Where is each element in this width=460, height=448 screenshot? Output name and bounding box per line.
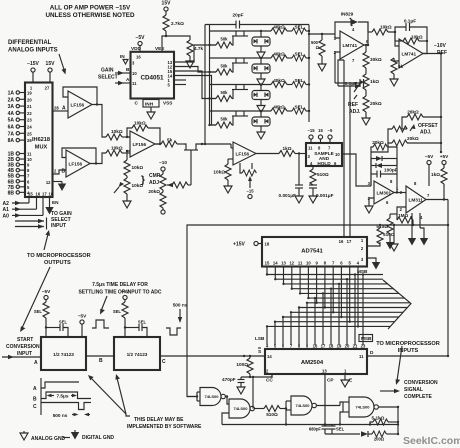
svg-text:LM741: LM741: [402, 51, 417, 56]
svg-text:1: 1: [361, 238, 364, 243]
ladder row 3: [208, 78, 310, 113]
svg-text:−5V: −5V: [78, 314, 87, 319]
svg-text:23: 23: [27, 118, 32, 123]
diode pair clamp: [371, 156, 397, 168]
waveform pulse positive: [92, 320, 109, 328]
svg-text:A: A: [33, 386, 37, 392]
transistor Q1 jfet switch: [184, 143, 231, 185]
svg-text:START: START: [17, 337, 33, 343]
svg-text:16: 16: [36, 192, 41, 197]
svg-text:7: 7: [332, 261, 335, 266]
note all op amp power: [45, 5, 135, 20]
waveform timing diagram: [33, 378, 91, 418]
svg-text:4A: 4A: [8, 111, 15, 117]
svg-text:DIGITAL GND: DIGITAL GND: [82, 435, 114, 441]
svg-text:OFFSET: OFFSET: [418, 123, 438, 129]
svg-text:IH6218: IH6218: [32, 137, 50, 143]
nand G3 74LS00: [291, 396, 316, 415]
svg-text:COMPLETE: COMPLETE: [404, 394, 432, 400]
am2504 D pin: [359, 350, 449, 359]
one-shot 74123 a: [41, 337, 86, 370]
svg-text:IMPLEMENTED BY SOFTWARE: IMPLEMENTED BY SOFTWARE: [127, 424, 202, 430]
svg-text:C: C: [162, 359, 166, 365]
svg-text:ADJ.: ADJ.: [420, 130, 432, 136]
svg-text:13: 13: [281, 261, 286, 266]
svg-text:THIS DELAY MAY BE: THIS DELAY MAY BE: [134, 417, 184, 423]
svg-text:+15V: +15V: [233, 242, 245, 248]
svg-text:11: 11: [298, 261, 303, 266]
terminal -5V oneshot a2: [78, 314, 87, 338]
svg-text:−5: −5: [328, 128, 333, 133]
note to gain select input: [51, 211, 72, 229]
terminal 15V mux: [46, 61, 56, 83]
svg-text:3: 3: [132, 61, 135, 66]
svg-text:21: 21: [353, 344, 358, 349]
resistor 20k a: [402, 110, 442, 130]
svg-text:6: 6: [27, 179, 30, 184]
svg-text:INPUT: INPUT: [51, 223, 66, 229]
svg-text:5: 5: [349, 261, 352, 266]
terminal -5V oneshot b: [121, 289, 130, 302]
wire comparator loop: [187, 224, 449, 397]
waveform pulse negative: [166, 328, 181, 335]
svg-text:7A: 7A: [8, 131, 15, 137]
resistor 510ohm g2: [254, 406, 287, 418]
mux output B pin 2: [53, 169, 67, 175]
svg-text:A1: A1: [3, 207, 10, 213]
svg-text:C: C: [135, 101, 139, 106]
svg-text:22: 22: [27, 111, 32, 116]
op-amp LM741 ref: [334, 27, 369, 63]
svg-text:ALL OP AMP POWER −15V: ALL OP AMP POWER −15V: [50, 5, 131, 12]
svg-text:CONVERSION: CONVERSION: [6, 344, 40, 350]
svg-text:B: B: [62, 169, 66, 175]
terminal -5V +5V: [425, 154, 449, 186]
op-amp A2 LF156 lower buffer: [62, 148, 106, 177]
ground lm301: [365, 198, 374, 213]
gain select lines: [15, 218, 47, 230]
svg-text:50k: 50k: [221, 90, 229, 95]
svg-text:REF: REF: [437, 50, 447, 56]
resistor 100ohm: [236, 355, 253, 378]
resistor 20k b: [388, 126, 407, 143]
am2504 left pin S: [258, 348, 272, 359]
svg-text:6: 6: [340, 261, 343, 266]
pot 20k gain trim: [148, 160, 191, 214]
resistor 5k to gnd: [390, 58, 404, 86]
start conversion arrow: [2, 355, 41, 359]
svg-text:−5V: −5V: [42, 289, 51, 294]
svg-text:15: 15: [318, 128, 323, 133]
svg-text:INH: INH: [145, 102, 154, 107]
mux U1 IH6218: [25, 83, 53, 198]
svg-text:50k: 50k: [221, 37, 229, 42]
resistor 1M: [397, 207, 414, 226]
svg-text:18: 18: [49, 192, 54, 197]
svg-text:VEE: VEE: [155, 46, 164, 51]
input 2B: [8, 157, 33, 163]
svg-text:11: 11: [27, 152, 32, 157]
svg-text:−10: −10: [159, 160, 167, 165]
svg-text:5.1kΩ: 5.1kΩ: [372, 416, 385, 421]
resistor 10k feedback: [395, 32, 428, 54]
svg-text:16: 16: [313, 344, 318, 349]
svg-text:8: 8: [390, 179, 393, 184]
node C wire to am2504: [160, 355, 265, 365]
capacitor 100pF: [371, 166, 398, 194]
label MSB boxed: [359, 335, 373, 342]
svg-text:2: 2: [266, 369, 269, 374]
svg-text:−15V: −15V: [27, 61, 39, 67]
svg-text:15V: 15V: [46, 61, 56, 67]
svg-text:−15: −15: [307, 128, 315, 133]
svg-text:8B: 8B: [8, 190, 15, 196]
svg-text:EN: EN: [52, 200, 59, 205]
svg-text:B: B: [126, 67, 130, 72]
svg-text:50k: 50k: [221, 117, 229, 122]
svg-text:100pF: 100pF: [384, 168, 398, 173]
svg-text:4: 4: [266, 344, 269, 349]
capacitor SEL b: [125, 320, 147, 338]
svg-text:ANALOG INPUTS: ANALOG INPUTS: [8, 48, 58, 54]
conversion signal complete: [380, 346, 438, 400]
svg-text:20kΩ: 20kΩ: [407, 110, 419, 115]
offset pot lf156: [240, 163, 256, 199]
one-shot 74123 b: [114, 337, 160, 370]
resistor 10k lower input: [106, 146, 130, 157]
svg-text:SeekIC.com: SeekIC.com: [403, 435, 460, 447]
resistor 1k: [256, 146, 306, 157]
svg-text:MSB: MSB: [361, 336, 372, 341]
input 3B: [8, 163, 30, 169]
svg-text:4: 4: [357, 261, 360, 266]
svg-text:0.001μF: 0.001μF: [279, 193, 297, 198]
mux pin 12 ground: [46, 180, 66, 191]
sar U5 AM2504: [265, 349, 367, 374]
svg-text:B: B: [99, 358, 103, 364]
terminal +15V: [233, 241, 270, 247]
resistor 500ohm ladder: [308, 33, 335, 71]
svg-text:14: 14: [273, 261, 278, 266]
svg-text:7: 7: [290, 344, 293, 349]
g4 output: [378, 406, 399, 434]
svg-text:+5V: +5V: [440, 154, 449, 159]
svg-text:3: 3: [361, 257, 364, 262]
svg-text:10kΩ: 10kΩ: [111, 146, 123, 151]
svg-text:8: 8: [318, 146, 321, 151]
svg-text:74LS00: 74LS00: [295, 403, 310, 408]
resistor 510: [376, 214, 397, 250]
svg-text:TO MICROPROCESSOR: TO MICROPROCESSOR: [376, 341, 440, 347]
resistor 2.7k: [162, 15, 184, 52]
note differential analog inputs: [8, 40, 66, 75]
svg-text:2: 2: [361, 246, 364, 251]
svg-text:5A: 5A: [8, 118, 15, 124]
wire sh to lm301: [342, 154, 371, 186]
svg-text:9: 9: [27, 163, 30, 168]
op-amp LM741 inverter: [399, 39, 423, 68]
nand G4 74LS00: [340, 397, 378, 425]
svg-text:28: 28: [54, 106, 59, 111]
svg-text:MSB: MSB: [357, 269, 368, 274]
svg-text:5k: 5k: [398, 64, 404, 69]
svg-text:B: B: [33, 397, 37, 403]
svg-text:10kΩ: 10kΩ: [411, 35, 423, 40]
input 7A: [8, 131, 33, 137]
svg-text:INPUT: INPUT: [17, 351, 32, 357]
svg-text:500 ns: 500 ns: [53, 413, 68, 418]
ground digital gnd: [71, 430, 115, 441]
dac U4 AD7541: [262, 237, 367, 267]
nand G1 74LS00: [187, 388, 225, 406]
svg-text:2: 2: [54, 169, 57, 174]
sample and hold U3: [306, 143, 342, 166]
svg-text:18: 18: [329, 344, 334, 349]
svg-text:A0: A0: [3, 213, 10, 219]
svg-text:27: 27: [45, 86, 50, 91]
op-amp LM301: [368, 179, 399, 205]
capacitor 470pF: [222, 377, 245, 394]
note 7.5us time delay: [78, 282, 161, 315]
ladder row 4: [208, 105, 310, 140]
svg-text:3A: 3A: [8, 104, 15, 110]
svg-text:7: 7: [328, 146, 331, 151]
svg-text:6: 6: [386, 200, 389, 205]
input 1A: [8, 91, 33, 97]
svg-text:ANALOG GND: ANALOG GND: [31, 436, 66, 442]
capacitor SEL g: [329, 425, 345, 435]
svg-text:510Ω: 510Ω: [383, 232, 395, 237]
note ref adj: [348, 95, 361, 115]
resistor 20k feedback: [371, 140, 397, 186]
svg-text:1/2 74123: 1/2 74123: [53, 352, 74, 357]
svg-text:1A: 1A: [8, 91, 15, 97]
note to microprocessor outputs: [20, 230, 91, 332]
svg-text:6A: 6A: [8, 125, 15, 131]
diode IN829 zener: [335, 12, 369, 47]
ad7541 ref wires: [338, 60, 442, 237]
svg-text:SEL: SEL: [113, 309, 122, 314]
node A0: [3, 197, 44, 219]
wire lm301 out to lm311: [394, 192, 406, 194]
svg-text:7: 7: [27, 174, 30, 179]
svg-text:LM301: LM301: [377, 190, 392, 195]
svg-text:LF156: LF156: [71, 102, 85, 107]
ladder bus lines: [204, 25, 309, 146]
svg-text:9: 9: [306, 344, 309, 349]
svg-text:20kΩ: 20kΩ: [372, 140, 384, 145]
capacitor 0.001uF input: [279, 154, 303, 204]
svg-text:−10V: −10V: [434, 43, 446, 49]
svg-text:MUX: MUX: [35, 145, 48, 151]
input 2A: [8, 97, 33, 103]
g1 out to g2: [225, 395, 229, 404]
svg-text:−5V: −5V: [121, 289, 130, 294]
cc filter node: [241, 374, 272, 409]
svg-text:10: 10: [306, 261, 311, 266]
svg-text:SEL: SEL: [336, 427, 345, 432]
terminal -5V oneshot a: [42, 289, 51, 302]
input 5A: [8, 118, 33, 124]
svg-text:25: 25: [27, 131, 32, 136]
svg-text:C: C: [33, 404, 37, 410]
svg-text:20kΩ: 20kΩ: [407, 136, 419, 141]
op-amp A1 LF156 upper buffer: [63, 87, 106, 137]
svg-text:SIGNAL: SIGNAL: [404, 387, 423, 393]
svg-text:17: 17: [42, 192, 47, 197]
ref adj chain 30k 1k 20k: [354, 44, 382, 125]
svg-text:19: 19: [27, 91, 32, 96]
svg-text:VSS: VSS: [163, 101, 172, 106]
svg-text:0.001μF: 0.001μF: [316, 193, 334, 198]
svg-text:GAIN: GAIN: [101, 68, 114, 74]
svg-text:12: 12: [289, 261, 294, 266]
input 6A: [8, 125, 33, 131]
input 3A: [8, 104, 33, 110]
am2504 top pin numbers: [266, 344, 366, 349]
svg-text:74LS00: 74LS00: [355, 405, 370, 410]
svg-text:21: 21: [27, 104, 32, 109]
svg-text:10: 10: [132, 71, 137, 76]
svg-text:74LS00: 74LS00: [233, 406, 248, 411]
ground analog gnd: [20, 431, 70, 442]
resistor 20k c: [371, 136, 442, 152]
svg-text:11: 11: [308, 146, 313, 151]
svg-text:A2: A2: [3, 201, 10, 207]
svg-text:A: A: [126, 77, 130, 82]
svg-text:CC: CC: [266, 378, 273, 383]
lm311 grounds: [408, 213, 428, 246]
svg-text:500 ns: 500 ns: [173, 303, 188, 308]
svg-text:LF156: LF156: [133, 142, 147, 147]
svg-text:2A: 2A: [8, 97, 15, 103]
cd4051 IN pin 3: [120, 54, 135, 66]
capacitor SEL a: [46, 320, 68, 338]
svg-text:SEL: SEL: [138, 320, 147, 325]
node A: [34, 360, 38, 366]
svg-text:SEL: SEL: [59, 320, 68, 325]
lm311 output: [426, 198, 448, 356]
input 5B: [8, 174, 30, 180]
svg-text:10kΩ: 10kΩ: [213, 170, 225, 175]
svg-text:DIFFERENTIAL: DIFFERENTIAL: [8, 40, 52, 46]
CMR adj chain: [114, 150, 161, 208]
svg-text:LM741: LM741: [343, 43, 358, 48]
svg-text:20pF: 20pF: [233, 13, 244, 18]
svg-text:HOLD: HOLD: [317, 161, 331, 166]
svg-text:IN: IN: [120, 54, 125, 59]
svg-text:9: 9: [315, 261, 318, 266]
svg-text:UNLESS OTHERWISE NOTED: UNLESS OTHERWISE NOTED: [45, 12, 135, 19]
svg-text:LSB: LSB: [255, 336, 265, 341]
svg-text:10: 10: [27, 157, 32, 162]
svg-text:AM2504: AM2504: [301, 360, 324, 366]
dac pin3 ground: [367, 258, 380, 270]
note to microprocessor inputs: [376, 341, 440, 354]
svg-text:680pF: 680pF: [309, 427, 322, 432]
svg-text:13: 13: [322, 369, 327, 374]
resistor 510ohm sh: [310, 166, 329, 185]
svg-text:15V: 15V: [162, 1, 172, 7]
g3 to g4: [316, 402, 343, 406]
nand G2 74LS00: [229, 399, 254, 418]
svg-text:CONVERSION: CONVERSION: [404, 380, 438, 386]
resistor 510 dac: [367, 224, 395, 246]
svg-text:10kΩ: 10kΩ: [111, 129, 123, 134]
svg-text:ADJ.: ADJ.: [349, 109, 361, 115]
svg-text:5: 5: [274, 344, 277, 349]
svg-text:1kΩ: 1kΩ: [431, 172, 440, 177]
svg-text:LM311: LM311: [409, 197, 424, 202]
ladder row 2: [208, 52, 310, 87]
svg-text:20kΩ: 20kΩ: [370, 101, 382, 106]
svg-text:8A: 8A: [8, 138, 15, 144]
svg-text:30kΩ: 30kΩ: [370, 57, 382, 62]
sh supply terminals: [307, 128, 333, 143]
svg-text:19: 19: [337, 344, 342, 349]
svg-text:8: 8: [414, 181, 417, 186]
svg-text:1/2 74123: 1/2 74123: [127, 352, 148, 357]
am2504 bottom pins: [266, 369, 352, 425]
svg-text:20kΩ: 20kΩ: [148, 189, 160, 194]
input 8B: [8, 190, 30, 196]
svg-text:14: 14: [267, 354, 272, 359]
resistor 10k upper input: [106, 129, 130, 140]
svg-text:470pF: 470pF: [222, 377, 236, 382]
svg-text:7: 7: [427, 193, 430, 198]
data bus fan lines: [266, 267, 411, 346]
svg-text:−15: −15: [246, 189, 254, 194]
svg-text:−5V: −5V: [425, 154, 434, 159]
svg-text:7: 7: [352, 58, 355, 63]
capacitor 680pF: [309, 425, 329, 435]
svg-text:20: 20: [27, 97, 32, 102]
svg-text:17: 17: [321, 344, 326, 349]
gain select arrows: [98, 67, 137, 86]
svg-text:0.1μF: 0.1μF: [404, 19, 416, 24]
svg-text:10: 10: [335, 152, 340, 157]
resistor 1k pullup: [431, 168, 447, 200]
note this delay: [88, 374, 202, 430]
mux EN pin: [45, 197, 59, 215]
capacitor 0.001uF hold: [309, 185, 334, 203]
svg-text:OUTPUTS: OUTPUTS: [44, 260, 71, 266]
svg-text:LF156: LF156: [236, 151, 250, 156]
svg-text:D: D: [370, 350, 374, 355]
svg-text:8: 8: [324, 261, 327, 266]
op-amp A3 LF156 difference: [130, 131, 155, 157]
label LSB: [255, 336, 265, 341]
svg-text:23: 23: [361, 344, 366, 349]
resistor 4.7k: [166, 36, 204, 68]
svg-text:SEL: SEL: [34, 309, 43, 314]
svg-text:A: A: [34, 360, 38, 366]
svg-text:15: 15: [265, 261, 270, 266]
input 4A: [8, 111, 33, 117]
svg-text:VDD: VDD: [131, 46, 142, 51]
svg-text:2: 2: [400, 207, 403, 212]
svg-text:CD4051: CD4051: [140, 75, 164, 82]
terminal -5V cd4051: [135, 35, 145, 52]
dac gnd open: [390, 224, 398, 251]
label MSB ad7541: [357, 269, 368, 274]
op-amp A4 LF156: [228, 142, 256, 165]
node A2: [3, 197, 30, 207]
svg-text:3: 3: [368, 181, 371, 186]
svg-text:TO MICROPROCESSOR: TO MICROPROCESSOR: [27, 253, 91, 259]
label 500ns: [173, 303, 188, 324]
svg-text:IN829: IN829: [341, 12, 354, 17]
